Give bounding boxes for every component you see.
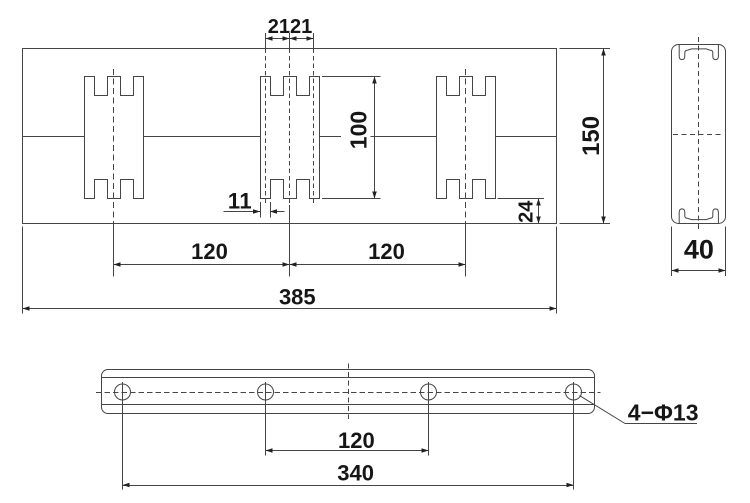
side view vertical centerline	[698, 37, 700, 232]
block 1 centerline	[113, 69, 115, 222]
svg-text:340: 340	[337, 460, 374, 485]
dimension 100	[322, 77, 381, 199]
block 1 castellated clamp outline	[85, 77, 144, 199]
svg-text:150: 150	[578, 116, 605, 156]
block 2 slot extension lines	[266, 33, 314, 277]
front view plate outline	[23, 49, 557, 224]
dimension 150	[560, 49, 611, 224]
block 2 slot centerlines dashed	[266, 49, 314, 206]
hole 3 phi 13	[421, 384, 437, 400]
side view bottom groove profile	[679, 209, 718, 223]
side view outline	[672, 45, 726, 224]
svg-text:40: 40	[684, 235, 714, 265]
side view horizontal mid dashed line	[673, 134, 724, 136]
dimension 120 bottom	[266, 428, 429, 453]
bottom view bar outline	[102, 370, 595, 414]
svg-text:120: 120	[368, 239, 405, 264]
dimension 385	[23, 227, 557, 314]
dimension 11	[224, 189, 285, 218]
dimension 21 21	[266, 16, 314, 41]
hole 1 phi 13	[115, 384, 131, 400]
block 3 castellated clamp outline	[437, 77, 496, 199]
hole 4 phi 13	[566, 384, 582, 400]
svg-text:11: 11	[228, 189, 252, 214]
svg-text:385: 385	[279, 285, 316, 310]
hole extension lines	[123, 382, 574, 490]
bottom view horizontal dashed centerline	[96, 392, 601, 394]
dimension 120 120	[114, 239, 466, 267]
block 3 centerline	[465, 69, 467, 222]
dimension 24	[498, 199, 545, 224]
svg-text:4−Φ13: 4−Φ13	[628, 400, 699, 426]
bottom view inner bottom edge line	[102, 404, 595, 406]
leader line 4-phi-13	[580, 396, 699, 426]
svg-text:2121: 2121	[268, 16, 313, 38]
side view top groove profile	[679, 45, 718, 60]
dimension 40	[672, 227, 726, 277]
svg-text:100: 100	[346, 111, 372, 149]
svg-text:120: 120	[338, 428, 375, 453]
bottom view vertical centerline	[348, 364, 350, 420]
svg-text:120: 120	[191, 239, 228, 264]
dimension 340 bottom	[123, 460, 574, 487]
svg-text:24: 24	[515, 200, 537, 223]
block 2 castellated clamp outline	[261, 77, 320, 199]
plate horizontal mid line	[23, 136, 557, 138]
hole 2 phi 13	[258, 384, 274, 400]
bottom view inner top edge line	[102, 377, 595, 379]
